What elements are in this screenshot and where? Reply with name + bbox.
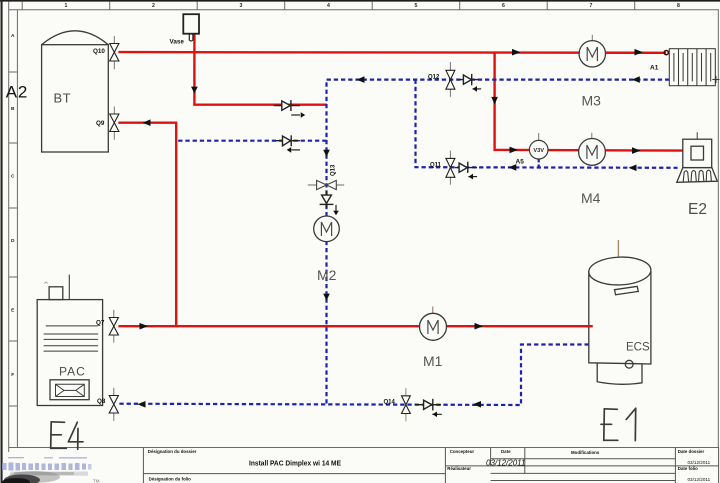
svg-text:ECS: ECS	[626, 342, 650, 354]
arrow red E2 right	[632, 147, 641, 154]
svg-text:Q9: Q9	[96, 120, 105, 127]
svg-text:03/12/2011: 03/12/2011	[486, 458, 525, 467]
svg-text:Désignation du folio: Désignation du folio	[149, 477, 192, 482]
wire red Q9 branch down	[118, 123, 176, 327]
svg-text:Q14: Q14	[384, 400, 396, 406]
PAC chimney pipe	[68, 275, 70, 300]
ruler bottom / frame top	[9, 9, 719, 11]
valve Q11	[430, 151, 455, 185]
arrow red bottom after M1	[475, 323, 484, 330]
radiator vent cross	[712, 76, 719, 83]
PAC roof mark	[45, 282, 48, 284]
svg-text:TM: TM	[93, 479, 100, 483]
scan noise bottom-left stamp	[2, 457, 100, 483]
tank ECS stem	[617, 240, 619, 258]
svg-text:Q13: Q13	[331, 164, 337, 176]
node A1 connection dot	[664, 51, 668, 55]
wire red top supply Q10 to radiator	[118, 51, 666, 54]
svg-text:6: 6	[502, 3, 505, 9]
expansion vessel Vase	[170, 14, 200, 45]
wire red vase drop	[194, 34, 326, 105]
arrow red near radiator	[635, 49, 644, 56]
pump M2	[314, 216, 340, 242]
tank ECS pedestal	[597, 363, 642, 384]
arrow blue top left near radiator	[632, 76, 640, 83]
svg-text:BT: BT	[54, 91, 72, 106]
arrow blue bottom mid left	[473, 401, 481, 408]
frame right	[717, 10, 719, 448]
pump M3	[579, 35, 605, 67]
arrow M4 red right	[510, 147, 519, 154]
svg-text:03/12/2011: 03/12/2011	[688, 477, 711, 482]
tank ECS body	[589, 271, 651, 364]
wire blue top return radiator to M2 column	[327, 80, 670, 405]
check valve after Q14	[415, 399, 442, 415]
arrow blue M2 column down upper	[323, 150, 330, 157]
pump M4	[579, 133, 606, 166]
svg-text:A1: A1	[650, 65, 659, 72]
svg-text:Désignation du dossier: Désignation du dossier	[148, 449, 197, 454]
svg-text:Date folio: Date folio	[678, 466, 698, 471]
svg-text:Q10: Q10	[93, 48, 105, 55]
frame left	[16, 10, 18, 448]
radiator body	[669, 49, 715, 86]
check valve after Q11	[455, 162, 477, 177]
left ruler line	[8, 1, 10, 452]
svg-text:F: F	[11, 372, 14, 378]
arrow blue top left near M2 column	[357, 76, 365, 83]
valve Q13	[308, 180, 344, 189]
svg-text:Modifications: Modifications	[571, 450, 600, 455]
svg-text:Concepteur: Concepteur	[450, 449, 475, 454]
top ruler line	[0, 0, 720, 2]
valve Q10	[93, 36, 119, 69]
arrow blue M2 column down lower	[323, 294, 330, 301]
scan dark edges	[0, 0, 720, 1]
svg-text:E2: E2	[688, 201, 707, 218]
arrow blue Q11 line left	[508, 164, 516, 171]
svg-text:7: 7	[590, 3, 593, 9]
svg-text:Q12: Q12	[428, 75, 440, 81]
arrow red right drop down	[491, 97, 498, 105]
svg-text:Date dossier: Date dossier	[678, 449, 705, 454]
arrow Q9 line left	[143, 119, 151, 126]
left ruler ticks	[9, 71, 18, 73]
svg-text:Q11: Q11	[430, 163, 442, 169]
svg-text:A2: A2	[6, 83, 28, 102]
wire red right drop to M4 line	[495, 52, 683, 150]
ruler letters	[11, 33, 15, 378]
E2 brush skirt	[677, 168, 718, 183]
svg-text:3: 3	[240, 3, 243, 9]
wire blue bottom return Q8 line	[118, 345, 588, 406]
svg-text:Date: Date	[501, 449, 511, 454]
wire blue V3V tap	[538, 159, 540, 167]
svg-text:A: A	[11, 33, 15, 39]
svg-text:A5: A5	[516, 159, 525, 166]
svg-text:8: 8	[677, 3, 680, 9]
svg-text:Vase: Vase	[170, 39, 185, 46]
tank ECS label plate	[615, 286, 639, 294]
valve Q9	[96, 107, 119, 140]
svg-text:V3V: V3V	[533, 148, 544, 154]
valve Q8	[97, 388, 118, 421]
tank ECS drain circle	[625, 360, 633, 368]
arrow red bottom after Q7	[140, 323, 149, 330]
svg-text:2: 2	[152, 3, 155, 9]
svg-text:B: B	[11, 106, 15, 112]
valve Q7	[96, 310, 118, 343]
PAC body	[37, 300, 102, 406]
check valve after Q12	[459, 74, 482, 89]
ruler numbers	[65, 3, 681, 9]
svg-text:Install PAC Dimplex wi 14 ME: Install PAC Dimplex wi 14 ME	[249, 461, 341, 468]
check valve on blue mid line	[275, 135, 300, 150]
tank BT dome	[42, 31, 109, 45]
arrow top red right	[512, 49, 521, 56]
svg-text:Q8: Q8	[97, 398, 106, 405]
svg-text:03/12/2011: 03/12/2011	[688, 460, 711, 465]
svg-text:5: 5	[415, 3, 418, 9]
arrow vase drop down	[191, 87, 198, 94]
check valve below Q13	[320, 191, 336, 212]
check valve on vase line	[274, 100, 300, 115]
valve Q12	[428, 62, 455, 97]
svg-text:1: 1	[65, 3, 68, 9]
top ruler ticks	[109, 1, 111, 10]
arrow blue E2 return left	[629, 165, 637, 172]
valve V3V	[529, 133, 548, 159]
label E4 hand-drawn	[51, 422, 83, 450]
PAC chimney box	[49, 287, 63, 300]
svg-text:PAC: PAC	[59, 365, 86, 379]
svg-text:Q7: Q7	[96, 320, 105, 327]
PAC compressor box	[50, 380, 89, 400]
svg-text:4: 4	[327, 3, 330, 9]
tank BT body	[42, 45, 109, 152]
svg-text:C: C	[11, 174, 15, 180]
frame bottom	[9, 447, 719, 449]
valve Q14	[384, 388, 411, 421]
svg-text:M3: M3	[582, 93, 602, 109]
wire blue branch to E2 return	[416, 80, 678, 168]
svg-text:Réalisateur: Réalisateur	[447, 466, 471, 471]
pump M1	[420, 307, 447, 341]
wire red stub into ECS	[586, 325, 593, 327]
wire red bottom supply Q7 to ECS	[118, 325, 592, 327]
label E1 hand-drawn	[601, 408, 636, 440]
svg-text:M1: M1	[423, 353, 443, 369]
svg-text:D: D	[11, 238, 15, 244]
PAC vents	[44, 326, 99, 351]
wire blue mid return to red column	[178, 140, 327, 142]
svg-text:M2: M2	[317, 267, 337, 283]
svg-text:M4: M4	[581, 190, 601, 206]
arrow blue bottom near Q8 left	[138, 401, 146, 408]
